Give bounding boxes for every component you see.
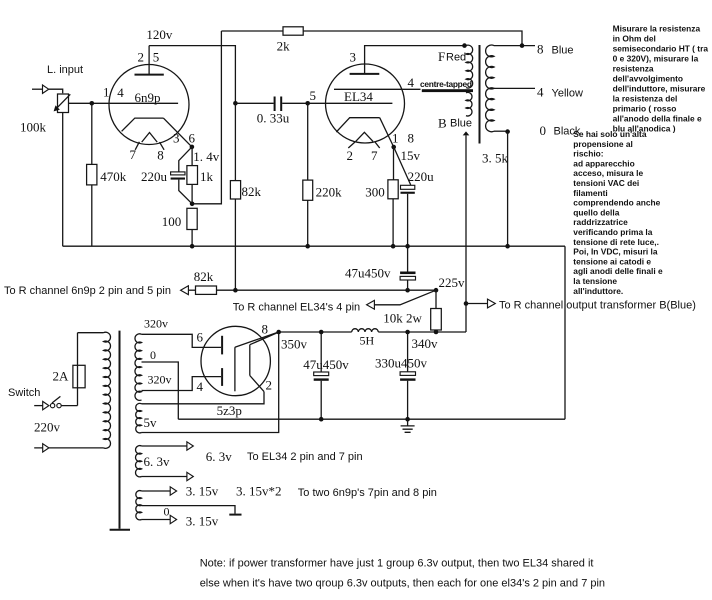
power transformer 6.3v winding xyxy=(136,446,142,477)
terminal arrow mains live xyxy=(43,401,49,409)
svg-text:8: 8 xyxy=(262,322,269,337)
power transformer core foot xyxy=(110,529,130,531)
svg-text:Misurare la resistenza: Misurare la resistenza xyxy=(613,24,701,34)
6n9p plate bar xyxy=(135,74,164,76)
pin 8 tick xyxy=(160,142,165,150)
node grid junction xyxy=(90,101,95,106)
capacitor 220u EL34 plates xyxy=(401,185,415,189)
tube 5z3p envelope xyxy=(201,326,270,395)
wire 3.15v top tap xyxy=(142,490,171,492)
note italian block 1 xyxy=(613,24,709,134)
svg-text:3: 3 xyxy=(173,131,180,146)
node 47u ground xyxy=(319,417,324,422)
svg-text:1k: 1k xyxy=(200,169,214,184)
svg-text:5z3p: 5z3p xyxy=(217,403,242,418)
wire filament 2 to pin 2 xyxy=(250,376,264,392)
svg-text:To R channel 6n9p 2 pin and 5: To R channel 6n9p 2 pin and 5 pin xyxy=(4,285,171,297)
wire switch to fuse xyxy=(61,405,77,407)
node 82k junction xyxy=(233,288,238,293)
wire to coupling cap xyxy=(235,102,273,104)
note italian block 2 xyxy=(573,129,663,296)
resistor 220k xyxy=(303,180,313,200)
pin 7 tick xyxy=(135,142,139,150)
wire 300 to rail xyxy=(392,199,394,246)
potentiometer 100k xyxy=(58,94,69,113)
wire 10k leads xyxy=(435,290,437,332)
wire to 470k xyxy=(91,103,93,164)
svg-text:rischio:: rischio: xyxy=(573,149,603,159)
svg-text:verificando prima la: verificando prima la xyxy=(573,227,652,237)
svg-text:filamenti: filamenti xyxy=(573,188,607,198)
output transformer primary upper xyxy=(466,45,473,88)
wire secondary 8 tap xyxy=(494,45,535,47)
svg-text:tensioni VAC dei: tensioni VAC dei xyxy=(573,178,639,188)
svg-text:3. 15v: 3. 15v xyxy=(186,514,219,529)
capacitor 47u450v first plates xyxy=(400,272,415,275)
resistor 1k xyxy=(187,166,198,185)
input terminal arrow xyxy=(43,85,49,93)
svg-text:0. 33u: 0. 33u xyxy=(257,111,290,126)
svg-text:7: 7 xyxy=(371,148,378,163)
wire fuse lead xyxy=(77,333,79,406)
svg-text:tensione ai catodi e: tensione ai catodi e xyxy=(573,256,651,266)
capacitor 330u450v leads xyxy=(407,332,409,419)
power transformer primary xyxy=(104,332,111,448)
wire 6.3v bottom tap xyxy=(142,476,187,478)
5z3p plate 6 bar xyxy=(221,336,223,355)
wire feedback rail left xyxy=(221,30,283,32)
svg-text:0 e 320V), misurare la: 0 e 320V), misurare la xyxy=(613,54,699,64)
node 100 ground xyxy=(190,244,195,249)
svg-text:220k: 220k xyxy=(316,185,343,200)
svg-text:8: 8 xyxy=(157,148,164,163)
wire 6.3v top tap xyxy=(142,445,187,447)
wire right riser to ground xyxy=(564,246,566,419)
inductor 5H xyxy=(352,329,379,332)
svg-text:agli anodi delle finali e: agli anodi delle finali e xyxy=(573,266,663,276)
node 0 tap xyxy=(505,129,510,134)
wire main ground rail xyxy=(178,418,565,420)
svg-text:Red: Red xyxy=(446,52,466,64)
svg-text:primario ( rosso: primario ( rosso xyxy=(613,104,677,114)
wire pin4 to UL tap bold xyxy=(422,89,473,92)
ground symbol xyxy=(401,419,415,432)
svg-text:la tensione: la tensione xyxy=(573,276,617,286)
svg-text:dell'induttore, misurare: dell'induttore, misurare xyxy=(613,84,706,94)
node transformer F xyxy=(462,43,467,48)
svg-text:6n9p: 6n9p xyxy=(135,90,161,105)
svg-text:Note: if power transformer hav: Note: if power transformer have just 1 g… xyxy=(200,558,594,570)
capacitor 220u leads xyxy=(179,147,192,204)
pin 2 tick xyxy=(348,142,355,148)
wire cathode diagonal to node xyxy=(380,118,394,147)
svg-text:2: 2 xyxy=(266,378,273,393)
svg-text:all'induttore.: all'induttore. xyxy=(573,286,623,296)
svg-text:centre-tapped: centre-tapped xyxy=(420,79,472,89)
potentiometer wiper arrow xyxy=(57,94,70,107)
output transformer primary lower xyxy=(466,92,472,116)
switch blade xyxy=(52,396,60,403)
node 10k top xyxy=(434,288,439,293)
6n9p heater xyxy=(142,133,158,143)
svg-text:8: 8 xyxy=(408,131,415,146)
svg-text:47u450v: 47u450v xyxy=(303,357,349,372)
svg-text:raddrizzatrice: raddrizzatrice xyxy=(573,217,628,227)
svg-text:quello della: quello della xyxy=(573,207,619,217)
svg-text:5: 5 xyxy=(153,50,160,65)
svg-text:225v: 225v xyxy=(439,275,466,290)
node 10k bottom xyxy=(434,330,439,335)
svg-text:F: F xyxy=(438,49,445,64)
wire 220k to rail xyxy=(307,200,309,246)
wire arrow to 10k top xyxy=(374,290,436,305)
resistor 100 xyxy=(187,208,197,229)
terminal B triangle xyxy=(463,131,470,135)
node EL34 cathode xyxy=(391,145,396,150)
5z3p plate 4 bar xyxy=(221,368,223,386)
wire 225v line xyxy=(217,289,437,291)
5z3p filament line 1 xyxy=(234,347,236,391)
node 350v xyxy=(319,330,324,335)
svg-text:6. 3v: 6. 3v xyxy=(144,454,171,469)
wire filament 1 to node 8 xyxy=(235,332,279,347)
svg-text:6. 3v: 6. 3v xyxy=(206,449,233,464)
EL34 cathode bar xyxy=(336,118,379,132)
wire pot ground xyxy=(62,113,64,247)
power transformer core xyxy=(119,331,121,529)
svg-text:0: 0 xyxy=(164,505,170,519)
wire feedback rail right xyxy=(303,31,522,46)
terminal arrow EL34 4 pin xyxy=(367,300,375,309)
terminal arrow R channel 6n9p xyxy=(181,286,189,295)
capacitor 47u450v first leads xyxy=(407,246,409,290)
EL34 plate bar xyxy=(350,73,380,75)
terminal arrow mains neutral xyxy=(43,444,49,452)
wire signal ground rail xyxy=(63,245,565,247)
node 220u ground xyxy=(405,244,410,249)
output transformer secondary xyxy=(486,45,494,132)
svg-text:acceso, misura le: acceso, misura le xyxy=(573,168,643,178)
wire 350v rail left xyxy=(279,331,352,333)
switch contacts xyxy=(57,403,61,407)
EL34 screen grid line pin 4 xyxy=(334,88,421,90)
svg-text:Yellow: Yellow xyxy=(552,88,583,100)
wire EL34 plate to transformer F xyxy=(365,46,465,74)
svg-text:15v: 15v xyxy=(401,148,421,163)
svg-text:300: 300 xyxy=(365,185,385,200)
svg-text:82k: 82k xyxy=(242,184,262,199)
svg-text:100: 100 xyxy=(162,214,182,229)
svg-text:320v: 320v xyxy=(144,317,168,331)
svg-text:else when it's have two qroup: else when it's have two qroup 6.3v outpu… xyxy=(200,577,605,589)
node 0 on rail xyxy=(505,244,510,249)
svg-text:propensione al: propensione al xyxy=(573,139,633,149)
tube 6n9p envelope xyxy=(109,65,189,145)
wire grid to 220k xyxy=(307,103,309,180)
svg-text:320v: 320v xyxy=(148,373,172,387)
tube EL34 envelope xyxy=(326,64,405,143)
svg-text:B: B xyxy=(438,116,447,131)
svg-text:5v: 5v xyxy=(144,415,158,430)
node 220k ground xyxy=(305,244,310,249)
svg-text:To R channel output transforme: To R channel output transformer B(Blue) xyxy=(499,300,696,312)
wire cathode to 300 xyxy=(393,147,395,180)
svg-text:0: 0 xyxy=(540,123,547,138)
wire B lead down xyxy=(465,135,467,332)
power transformer 3.15v winding xyxy=(136,491,142,520)
wire 100 to rail xyxy=(191,230,193,247)
capacitor 47u450v second leads xyxy=(320,332,322,419)
svg-text:Blue: Blue xyxy=(450,118,472,130)
wire B branch to arrow xyxy=(466,303,488,305)
node 225v cap junction xyxy=(405,288,410,293)
svg-text:220v: 220v xyxy=(34,420,61,435)
resistor 82k horizontal xyxy=(196,286,217,294)
wire arrow to 82k xyxy=(188,289,195,291)
wire HT bottom tap to plate 4 xyxy=(142,377,222,391)
svg-text:4: 4 xyxy=(117,85,124,100)
svg-text:220u: 220u xyxy=(141,169,168,184)
svg-text:220u: 220u xyxy=(408,169,435,184)
svg-text:comprendendo anche: comprendendo anche xyxy=(573,198,660,208)
svg-text:5: 5 xyxy=(310,88,317,103)
capacitor 220u plates xyxy=(171,172,185,175)
svg-text:EL34: EL34 xyxy=(344,89,373,104)
wire 3.15v bottom tap xyxy=(142,519,171,521)
wire cathode to 1k xyxy=(191,147,193,166)
terminal arrow output transformer B xyxy=(488,299,496,308)
fuse 2A xyxy=(73,365,85,388)
svg-text:3. 15v*2: 3. 15v*2 xyxy=(236,484,282,499)
svg-text:2A: 2A xyxy=(53,369,70,384)
node B branch xyxy=(464,301,469,306)
EL34 control grid line pin 5 xyxy=(308,102,393,104)
svg-text:2k: 2k xyxy=(277,39,291,54)
capacitor 330u450v plates xyxy=(400,372,415,376)
svg-text:350v: 350v xyxy=(281,337,308,352)
node 330u ground xyxy=(405,417,410,422)
resistor 300 xyxy=(388,180,398,199)
wire switch input xyxy=(34,405,43,407)
node feedback tap xyxy=(520,43,525,48)
svg-text:8: 8 xyxy=(537,42,544,57)
wire 120v rail xyxy=(149,46,235,104)
svg-text:7: 7 xyxy=(130,147,137,162)
svg-text:4: 4 xyxy=(408,75,415,90)
svg-text:2: 2 xyxy=(138,50,145,65)
wire input lead xyxy=(32,88,43,90)
resistor 10k 2w xyxy=(431,309,442,331)
node EL34 grid xyxy=(305,101,310,106)
svg-text:all'anodo della finale e: all'anodo della finale e xyxy=(613,114,702,124)
wire coupling cap to grid xyxy=(282,102,308,104)
resistor 82k vertical xyxy=(230,181,240,199)
svg-text:0: 0 xyxy=(150,348,156,362)
wire input to pot xyxy=(49,89,63,93)
wire 340v rail xyxy=(378,331,466,333)
wire 1k to node xyxy=(191,184,193,203)
wire plate lead up xyxy=(148,46,150,75)
wire mains neutral xyxy=(34,447,103,449)
svg-text:Poi, In VDC, misuri la: Poi, In VDC, misuri la xyxy=(573,247,658,257)
wire grid row 6n9p xyxy=(69,102,178,104)
node 6n9p cathode xyxy=(190,145,195,150)
wire secondary 4 tap xyxy=(494,87,535,89)
wire 470k to rail xyxy=(91,185,93,246)
wire cathode to 220u diagonal xyxy=(394,147,411,185)
wire HT centre tap to ground xyxy=(142,362,179,419)
node coupling left xyxy=(233,101,238,106)
terminal arrow 3.15v top xyxy=(170,487,176,495)
svg-text:1. 4v: 1. 4v xyxy=(193,149,220,164)
svg-text:2: 2 xyxy=(347,148,354,163)
centre tap ground bar xyxy=(229,514,241,516)
svg-text:47u450v: 47u450v xyxy=(345,266,391,281)
svg-text:Se hai solo un'alta: Se hai solo un'alta xyxy=(573,129,647,139)
power transformer HT winding xyxy=(135,334,142,401)
capacitor 0.33u xyxy=(274,97,276,112)
wire 3.15v centre tap xyxy=(142,506,236,514)
svg-text:L. input: L. input xyxy=(47,64,83,76)
svg-text:120v: 120v xyxy=(146,27,173,42)
svg-text:6: 6 xyxy=(197,330,204,345)
node rectifier output xyxy=(276,330,281,335)
resistor 2k xyxy=(283,27,303,35)
svg-text:4: 4 xyxy=(537,85,544,100)
svg-text:5H: 5H xyxy=(360,334,375,348)
5z3p filament line 2 xyxy=(249,345,251,376)
svg-text:dell'avvolgimento: dell'avvolgimento xyxy=(613,74,683,84)
wire filament 2 to node 8 xyxy=(250,333,278,345)
wire plate node to 82k xyxy=(234,103,236,180)
EL34 heater xyxy=(356,132,373,141)
svg-text:resistenza: resistenza xyxy=(613,64,654,74)
svg-text:3: 3 xyxy=(350,50,357,65)
svg-text:in Ohm del: in Ohm del xyxy=(613,34,656,44)
node 300 ground xyxy=(391,244,396,249)
pin 7 tick xyxy=(375,142,380,148)
svg-text:To two 6n9p's 7pin and 8 pin: To two 6n9p's 7pin and 8 pin xyxy=(298,487,437,499)
svg-text:tensione di rete luce,.: tensione di rete luce,. xyxy=(573,237,659,247)
svg-text:1: 1 xyxy=(103,85,110,100)
6n9p cathode bar xyxy=(122,118,164,131)
svg-text:82k: 82k xyxy=(194,269,214,284)
svg-text:330u450v: 330u450v xyxy=(375,356,428,371)
wire cathode diagonal to node xyxy=(163,118,192,147)
svg-text:3. 15v: 3. 15v xyxy=(186,484,219,499)
svg-text:10k 2w: 10k 2w xyxy=(383,311,422,326)
svg-text:6: 6 xyxy=(189,131,196,146)
wire 82k to 225v line xyxy=(234,199,236,290)
wire HT top tap to plate 6 xyxy=(142,334,222,347)
resistor 470k xyxy=(87,164,97,185)
svg-text:1: 1 xyxy=(392,131,399,146)
svg-text:semisecondario HT ( tra: semisecondario HT ( tra xyxy=(613,44,709,54)
svg-text:4: 4 xyxy=(197,379,204,394)
wire secondary 0 tap xyxy=(494,130,508,132)
capacitor 47u450v second plates xyxy=(314,372,329,376)
wire 5v top tap to pin 2 xyxy=(142,392,265,404)
power transformer 5v winding xyxy=(136,403,142,433)
wire NFB to cathode xyxy=(192,31,221,204)
svg-text:340v: 340v xyxy=(412,336,439,351)
wire 0 tap to signal rail xyxy=(507,132,509,247)
node 340v xyxy=(405,330,410,335)
wire mains top lead xyxy=(78,332,104,334)
svg-text:la resistenza del: la resistenza del xyxy=(613,94,678,104)
svg-text:Switch: Switch xyxy=(8,387,40,399)
node 1k-100 junction xyxy=(190,202,195,207)
terminal arrow 6.3v top xyxy=(187,442,193,450)
terminal arrow 3.15v bottom xyxy=(170,515,176,523)
output transformer core xyxy=(479,45,481,144)
svg-text:100k: 100k xyxy=(20,120,47,135)
svg-text:To R channel EL34's 4 pin: To R channel EL34's 4 pin xyxy=(233,302,360,314)
svg-text:Blue: Blue xyxy=(552,45,574,57)
wire 5v bottom tap to pin 8 xyxy=(142,332,279,433)
svg-text:3. 5k: 3. 5k xyxy=(482,151,509,166)
wire 220u to rail xyxy=(407,194,409,246)
svg-text:470k: 470k xyxy=(100,169,127,184)
svg-text:To EL34 2 pin and 7 pin: To EL34 2 pin and 7 pin xyxy=(247,451,363,463)
svg-text:ad apparecchio: ad apparecchio xyxy=(573,158,634,168)
terminal arrow 6.3v bottom xyxy=(187,472,193,480)
